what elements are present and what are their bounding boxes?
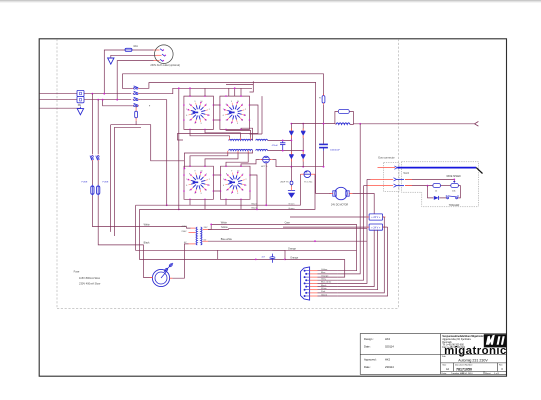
svg-text:1: 1: [209, 185, 210, 187]
wire N terminal to switch pole 3: [84, 99, 131, 101]
fuse F3 capsule: [91, 185, 94, 196]
connector J3 DB9 shell: [301, 267, 310, 300]
wire box around wafer B: [220, 96, 250, 129]
junction orange node: [284, 259, 286, 261]
junction trigger node: [427, 185, 429, 187]
wire euro3 riser: [364, 185, 368, 187]
wire net to y258: [140, 209, 285, 259]
junction B1 feedback: [265, 204, 267, 206]
junction blue-white: [314, 240, 316, 242]
wire wafer B right taps: [178, 105, 259, 140]
switch S1 pole 6 contact: [96, 155, 99, 161]
wire F1 to xfmr 0V: [172, 244, 188, 278]
junction bridge top right: [302, 123, 304, 125]
svg-text:2: 2: [243, 190, 244, 192]
wire 24V White: [208, 224, 357, 229]
wire J3 pin 8 lead: [318, 292, 338, 294]
wire ctrl feed white riser: [91, 94, 93, 154]
svg-text:1: 1: [245, 115, 246, 117]
wire motor to riser: [352, 194, 374, 214]
svg-text:Approved :: Approved :: [364, 358, 377, 362]
svg-text:2: 2: [246, 179, 247, 181]
svg-text:2: 2: [245, 109, 246, 111]
svg-text:10: 10: [201, 101, 203, 103]
resistor R2 damping: [338, 109, 349, 113]
sensor B1 circle: [261, 156, 271, 163]
wire aux fuse to outlet pin 1: [132, 49, 153, 51]
svg-text:260F TS: 260F TS: [280, 182, 289, 184]
wire bridge right column: [302, 124, 304, 167]
svg-text:2: 2: [206, 120, 207, 122]
euro connector dashed box: [384, 162, 399, 191]
connector J2: [366, 224, 385, 230]
junction bridge top left: [291, 123, 293, 125]
wire pole1 left riser: [122, 74, 132, 89]
svg-text:HCT 5: HCT 5: [261, 166, 268, 168]
pin stub TR1 0V: [189, 243, 196, 245]
svg-text:Green: Green: [321, 293, 328, 296]
svg-text:5: 5: [189, 190, 190, 192]
svg-text:4: 4: [195, 193, 196, 195]
switch S1 pole 5 contact: [90, 155, 93, 161]
svg-text:9: 9: [195, 101, 196, 103]
svg-text:Orange: Orange: [288, 247, 297, 250]
svg-text:1: 1: [246, 185, 247, 187]
svg-text:WIRE SPEED: WIRE SPEED: [446, 176, 461, 178]
svg-text:3: 3: [201, 193, 202, 195]
junction N at ctrl feed riser: [97, 99, 99, 101]
svg-text:470uF: 470uF: [272, 145, 279, 147]
drawing frame border: [39, 39, 506, 376]
pin euro 2: [371, 178, 404, 181]
transformer TR2 secondary 1: [256, 139, 268, 140]
Migatronic logo emblem black box: [484, 334, 506, 347]
svg-text:Blue-white: Blue-white: [321, 281, 332, 284]
wire TR2 tap stair down 3: [226, 153, 248, 166]
connector J1: [366, 214, 385, 220]
wire Blue-white: [208, 240, 367, 242]
wire pole6 to fuse F4: [97, 161, 99, 185]
pin stub TS1 right: [311, 173, 315, 175]
svg-text:Blue-white: Blue-white: [221, 238, 233, 241]
wire TR2 tap stair up 1: [190, 129, 230, 137]
wire bridge left column: [290, 124, 292, 167]
svg-text:Date :: Date :: [364, 365, 371, 369]
wire mid riser178: [178, 88, 180, 209]
wire TR2 tap stair down 2: [205, 153, 238, 166]
wire R1 to cap node: [323, 105, 325, 144]
wire L1 R2 left leg: [335, 112, 338, 125]
svg-text:7: 7: [223, 179, 224, 181]
svg-text:24V: 24V: [204, 227, 208, 229]
svg-text:2: 2: [242, 120, 243, 122]
wire top net pole1b: [149, 82, 316, 193]
wire motor left wire: [316, 193, 331, 195]
wire net link v: [217, 250, 219, 259]
svg-text:Title:: Title:: [442, 355, 447, 358]
svg-text:2: 2: [209, 179, 210, 181]
ground PE arrow at mains entry: [77, 109, 83, 115]
svg-text:Fuse: Fuse: [74, 270, 80, 274]
svg-text:230V AUX outlet (optional): 230V AUX outlet (optional): [150, 64, 180, 67]
terminal block X2 L: [77, 90, 84, 96]
pin stub TR1 24V: [203, 228, 208, 230]
motor M1 24V DC: [333, 187, 349, 199]
junction L at aux riser: [103, 93, 105, 95]
wire long net y209 green: [140, 174, 316, 209]
transformer TR2 primary 1: [229, 139, 253, 140]
wire B1 right: [272, 160, 291, 167]
svg-text:4: 4: [195, 123, 196, 125]
svg-text:9: 9: [231, 171, 232, 173]
rotary switch S2 wafer C: [186, 171, 209, 195]
resistor R1: [322, 94, 325, 105]
wire pole4 stub: [135, 106, 137, 108]
junction snubber left: [255, 259, 257, 261]
svg-text:9: 9: [195, 171, 196, 173]
svg-text:Document Number: Document Number: [455, 364, 473, 367]
svg-text:Rev: Rev: [499, 365, 503, 367]
wire J3 pin 3 lead: [318, 276, 338, 278]
pin stub aux pin2: [156, 54, 162, 56]
pin stub TR1 415V: [191, 227, 196, 229]
connector W1 weld output arrow: [475, 122, 479, 127]
diode D2: [301, 131, 305, 135]
svg-text:Design :: Design :: [364, 337, 374, 341]
junction wafer C left edge: [184, 168, 186, 170]
ground arrow chassis: [288, 193, 295, 198]
wire trigger loop: [428, 186, 461, 198]
junction bus A1: [189, 87, 191, 89]
wire TR2 prim1 right hook: [241, 128, 253, 140]
wire wafer B right riser: [250, 96, 263, 134]
wire net to y251: [136, 205, 357, 250]
fuse F4 capsule: [97, 185, 100, 196]
svg-text:Automig 231 230V: Automig 231 230V: [458, 359, 488, 363]
wire L terminal to switch pole 2: [84, 93, 131, 95]
junction dots wafer C box: [183, 165, 214, 200]
wire wafer D right down: [250, 175, 257, 209]
svg-text:Svejsemaskinefabrikken Migatro: Svejsemaskinefabrikken Migatronic A/S: [442, 335, 488, 338]
wire J3 pin 5 lead: [318, 282, 338, 284]
wire TR2 sec2 to bridge: [268, 150, 304, 152]
pin stub pot net: [405, 185, 412, 187]
svg-text:75 C NC: 75 C NC: [304, 182, 313, 184]
wire TR1 415V stub left: [187, 227, 191, 229]
svg-text:7: 7: [186, 109, 187, 111]
svg-text:Orange: Orange: [290, 256, 299, 259]
junction bridge mid right: [302, 150, 304, 152]
wire wafer C bottom taps: [190, 199, 205, 209]
wire wafer AB mid link: [213, 105, 220, 120]
svg-text:7: 7: [223, 109, 224, 111]
transformer TR1 control: [196, 227, 202, 245]
junction output riser: [359, 123, 361, 125]
pin stub TR1 0V sec: [203, 240, 208, 242]
wire wafer CD mid link: [213, 175, 220, 191]
junction dots wafer B box: [219, 95, 250, 130]
wire L to aux fuse: [104, 50, 124, 94]
diode D4: [301, 155, 305, 159]
wire euro2 riser: [367, 178, 371, 180]
wire J3 pin 1 lead: [318, 270, 338, 272]
svg-text:8: 8: [189, 174, 190, 176]
wire harness v1: [337, 224, 356, 270]
resistor R3 1k: [433, 184, 441, 188]
wire PE corner to outlet pin 2: [111, 55, 156, 57]
wire harness v8: [337, 217, 384, 293]
wire Yellow: [208, 228, 367, 231]
wire bridge plus rail: [291, 123, 335, 125]
wire harness v4: [337, 186, 363, 281]
svg-text:3: 3: [201, 123, 202, 125]
socket X1 230V AUX outlet circle: [155, 45, 174, 64]
wire F3 to xfmr 230V: [92, 196, 186, 227]
svg-text:8: 8: [226, 174, 227, 176]
wire TR2 tap stair up 2: [205, 129, 241, 137]
diode D5 trigger: [434, 196, 439, 200]
svg-text:10: 10: [237, 171, 239, 173]
wire bridge minus rail: [291, 166, 323, 168]
wire wiper net: [405, 179, 454, 182]
svg-text:Green: Green: [288, 203, 295, 206]
torch dashed outline: [401, 162, 478, 207]
svg-text:Torch: Torch: [403, 172, 410, 175]
pin number pole4: [149, 105, 150, 106]
capacitor C2 4n7: [270, 254, 276, 263]
rotary switch S2 wafer A: [186, 101, 209, 125]
switch S1 pole 1 contact: [133, 86, 139, 89]
switch S3 trigger: [446, 195, 458, 199]
wire J3 pin 9 lead: [318, 295, 338, 297]
wire J2 right down: [383, 226, 388, 228]
wire C1 bottom to minus rail: [323, 151, 325, 167]
pin euro 1: [378, 166, 398, 169]
transformer TR2 primary 2: [229, 149, 253, 150]
fuse holder F1 cartridge: [164, 263, 173, 272]
junction bus B2: [234, 87, 236, 89]
junction bridge bottom right: [302, 166, 304, 168]
wire mains PE from frame: [40, 107, 81, 109]
junction riser178 bot: [178, 209, 180, 211]
wire orange to DB9 area: [285, 258, 345, 260]
svg-text:020114: 020114: [385, 345, 394, 349]
wire box around wafer C: [184, 166, 213, 199]
wire TR2 sec1 to bridge: [268, 139, 292, 141]
wire J3 pin 2 lead: [318, 273, 338, 275]
wire TR2 prim2 right hook: [184, 151, 252, 169]
wire TR2 tap stair up 3: [226, 129, 251, 137]
svg-text:4: 4: [231, 193, 232, 195]
svg-text:5: 5: [226, 190, 227, 192]
svg-text:1: 1: [209, 115, 210, 117]
wire J3 pin 7 lead: [318, 289, 338, 291]
svg-text:Green: Green: [288, 207, 295, 210]
svg-text:Black: Black: [321, 285, 327, 287]
switch S1 pole 4 contact: [133, 103, 139, 106]
wire bus drop A2: [204, 88, 206, 96]
svg-text:78171050: 78171050: [456, 368, 472, 372]
svg-text:3: 3: [237, 123, 238, 125]
svg-text:3: 3: [237, 193, 238, 195]
wire bus drop A1: [189, 88, 191, 96]
connector J3 pins: [304, 270, 318, 297]
svg-text:FUSE: FUSE: [82, 182, 88, 184]
svg-text:2: 2: [206, 190, 207, 192]
svg-text:24V DC MOTOR: 24V DC MOTOR: [331, 205, 349, 207]
svg-text:4: 4: [231, 123, 232, 125]
svg-text:1 of 1: 1 of 1: [494, 373, 500, 375]
svg-text:PE: PE: [78, 104, 82, 107]
wire harness v2: [337, 124, 360, 274]
junction C3 top: [282, 140, 284, 142]
wire wafer B right riser 1: [226, 81, 253, 92]
wire wafer D bottom taps: [226, 199, 241, 209]
junction L at ctrl feed riser: [92, 93, 94, 95]
wire F4 to fuse holder path: [98, 196, 152, 278]
svg-text:+ 24 V +: + 24 V +: [371, 216, 381, 219]
fuse holder F1 circle: [152, 269, 169, 286]
wire J3 pin 6 lead: [318, 286, 338, 288]
svg-text:5: 5: [226, 120, 227, 122]
svg-text:230V: 230V: [181, 231, 187, 233]
wire N to outlet pin 3: [117, 61, 153, 100]
switch S1 pole 3 contact: [133, 97, 139, 100]
junction 24V node: [210, 224, 212, 226]
wire harness v3: [337, 259, 344, 277]
title block outer frame: [360, 334, 506, 375]
wire mains N from frame: [40, 99, 77, 101]
page top edge shade: [0, 0, 541, 1]
svg-text:White: White: [144, 223, 151, 226]
junction riser178 top: [178, 87, 180, 89]
pin stub aux pin3: [154, 60, 160, 62]
wire bus drop B2: [234, 88, 236, 96]
diode D1: [289, 131, 293, 135]
svg-text:Date:: Date:: [442, 372, 447, 375]
svg-text:Date :: Date :: [364, 345, 371, 349]
diode D3: [289, 155, 293, 159]
junction dots wafer A box: [183, 95, 214, 130]
wire B1 left: [241, 160, 260, 167]
wire bus drop B1: [228, 88, 230, 96]
pin stub TR1 230V: [189, 232, 196, 234]
pin stub M1 left: [330, 193, 333, 195]
svg-text:Aggersundvej 33, Fjerritslev: Aggersundvej 33, Fjerritslev: [442, 338, 471, 341]
pin euro 3: [367, 184, 404, 187]
junction pole4 tap: [102, 99, 104, 101]
svg-text:115V 800mA Slow: 115V 800mA Slow: [79, 276, 100, 280]
wire harness v7: [337, 230, 377, 290]
svg-text:2: 2: [209, 109, 210, 111]
junction C1 minus: [323, 166, 325, 168]
wire harness v6: [337, 230, 374, 287]
terminal block X2 N: [77, 97, 84, 103]
rotary switch S2 wafer B: [223, 101, 246, 125]
pin stubs TR2 primary taps: [228, 138, 251, 154]
pin stub TS1 left: [300, 173, 304, 175]
svg-text:1: 1: [206, 104, 207, 106]
svg-text:8: 8: [189, 104, 190, 106]
torch tip stroke: [476, 168, 482, 174]
wire RV1 second leg: [114, 127, 141, 236]
wire harness v9: [337, 227, 387, 296]
pin stub B1 left: [260, 159, 263, 161]
wire RV1 bottom U-route: [111, 121, 184, 232]
inductor L1 choke: [336, 123, 350, 125]
wire mains L from frame: [40, 93, 77, 95]
thermal fuse F5: [290, 181, 293, 184]
svg-text:Sheet: Sheet: [485, 372, 491, 375]
fold line right dashed: [398, 39, 400, 309]
wire long net y205 green: [136, 174, 301, 205]
fold line bottom dashed: [57, 308, 399, 310]
fuse F2 10A: [125, 48, 133, 51]
wire J3 pin 4 lead: [318, 279, 338, 281]
switch S1 pole 2 contact: [133, 91, 139, 94]
svg-text:8: 8: [226, 104, 227, 106]
junction bridge mid left: [291, 140, 293, 142]
potentiometer R4 10k: [451, 181, 459, 188]
svg-text:100000uF: 100000uF: [330, 150, 341, 152]
wire pot net: [405, 185, 433, 187]
junction pole3 net: [166, 204, 168, 206]
wire top net pole2 bus: [139, 88, 252, 96]
svg-text:6: 6: [223, 115, 224, 117]
wire orange top: [272, 250, 285, 259]
thermal switch TS1 circle: [304, 171, 311, 178]
svg-text:FUSE: FUSE: [103, 182, 109, 184]
wire weld output plus: [353, 123, 474, 125]
junction bridge bottom left: [291, 166, 293, 168]
svg-text:Blue: Blue: [321, 272, 326, 274]
rotary switch S2 wafer D: [223, 171, 246, 195]
wire ground riser: [291, 167, 293, 187]
junction wiper: [453, 179, 455, 181]
svg-text:Denmark: Denmark: [442, 341, 452, 344]
junction dots wafer D box: [220, 165, 251, 200]
wire box around wafer A: [184, 96, 214, 129]
svg-text:10A: 10A: [133, 44, 138, 48]
transformer TR2 secondary 2: [256, 149, 268, 150]
svg-text:TRIGGER: TRIGGER: [449, 205, 460, 207]
svg-text:1: 1: [243, 174, 244, 176]
torch cable thick blue: [397, 167, 476, 169]
pin stub B1 right: [269, 159, 272, 161]
fold line left dashed: [56, 39, 58, 309]
wire TR2 tap stair down 1: [190, 153, 228, 166]
svg-text:White: White: [321, 287, 327, 290]
wire box around wafer D: [221, 166, 251, 199]
suppressor RV1 capsule: [135, 108, 138, 121]
PE ground arrow at aux outlet: [108, 58, 114, 64]
svg-text:+ 24 V +: + 24 V +: [371, 226, 381, 229]
pin stub wiper: [405, 178, 412, 180]
wire pole5 to fuse F3: [91, 161, 93, 185]
capacitor C1 100000uF: [319, 144, 328, 150]
svg-text:Orange: Orange: [321, 274, 329, 277]
svg-text:7: 7: [186, 179, 187, 181]
pin stub F1 left: [150, 276, 153, 278]
svg-text:6: 6: [186, 185, 187, 187]
junction C3 bottom: [282, 150, 284, 152]
wire B1 feedback down: [265, 163, 267, 205]
wire L1 R2 right leg: [349, 112, 353, 125]
svg-text:6: 6: [186, 115, 187, 117]
wire J1 right down: [383, 216, 385, 218]
svg-text:5: 5: [189, 120, 190, 122]
pin stub F1 right: [170, 277, 173, 279]
